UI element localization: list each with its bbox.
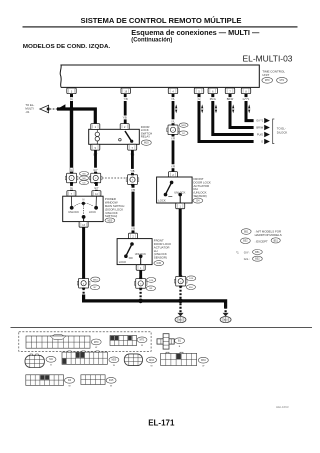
connector ref D4 [193,198,203,203]
connector face D4 [26,375,64,386]
svg-text:LOCK: LOCK [89,210,96,214]
svg-text:B51: B51 [255,251,260,254]
svg-text:EL-171: EL-171 [148,418,175,427]
dashed wire to ground bus [140,288,142,299]
wire G horizontal run with elbow to door lock switch relay coil pin [57,109,95,124]
wire label G/Y above connector [93,168,99,172]
output arrow PU/G [264,132,270,137]
connector refs D16 B10 [186,276,196,290]
wire BR/W to right arrow [230,93,254,127]
actuator RH bottom pin [176,203,185,209]
relay top pin 2 [120,124,129,130]
svg-text:M71: M71 [280,79,285,82]
output arrow BR/W [264,125,270,130]
connector face B cross [157,334,174,349]
wire label Y/B below relay [129,152,135,156]
section divider rule [11,326,313,329]
wire label G at pin 5 [198,97,201,101]
connector ref M70 [262,77,273,83]
power window main switch bottom pin [79,222,88,228]
svg-text:PU/G: PU/G [210,98,216,101]
svg-text:M19: M19 [144,142,149,145]
svg-text:G/Y :: G/Y : [244,250,251,254]
svg-text:M70: M70 [265,79,270,82]
svg-text:G: G [71,187,73,190]
junction connector M33 on wire Y/L [167,124,180,136]
wire label Y/R above actuator RH [170,164,176,168]
svg-text:D15: D15 [157,262,162,265]
relay coil [95,129,99,144]
front door lock actuator RH box [157,177,193,203]
actuator LH switch [124,242,142,264]
reference arrows on wire PU/G [215,104,217,113]
connector ref M4 oval [46,356,56,366]
svg-text:UNIT: UNIT [262,73,269,77]
switch mechanism [70,196,98,221]
dashed connector association line [102,177,127,179]
svg-text:B51: B51 [274,239,279,242]
page reference arrow TO EL-MULTI-01 [25,103,49,114]
svg-text:M33: M33 [149,359,154,362]
wire label Y/L above connector [170,119,176,123]
junction connector on actuator RH ground wire [174,275,187,287]
svg-text:Y/B: Y/B [131,189,135,192]
control unit pin 3 [67,88,76,94]
connector refs M34 B7 [90,277,100,290]
legend ref B52 [241,238,251,244]
actuator RH label [194,177,211,198]
svg-text:SENSOR): SENSOR) [194,194,207,198]
body ground B22 [220,303,231,322]
wire label Y/B above actuator LH [130,227,136,231]
svg-text:MODELOS DE COND. IZQDA.: MODELOS DE COND. IZQDA. [23,44,111,50]
time control unit box [60,65,259,87]
wire PU/G to right arrow [213,93,254,134]
left heading MODELOS DE COND. IZQDA. [23,44,111,50]
front door lock actuator RH top pin [169,172,178,178]
junction connector M4 on wire G [65,172,78,184]
connector ref M71 [277,77,288,83]
wire B switch to junction connector [82,227,85,278]
wire G main vertical to junction connector M4 [70,107,73,174]
wire label Y/B at pin 19 [123,97,129,101]
junction connector M4 on wire G/Y [89,172,102,184]
connector face M34 [161,352,197,365]
relay top pin 1 [91,124,100,130]
connector refs M4 D3 D4 [79,172,88,185]
front door lock actuator LH box [117,239,152,265]
wire G/Y to right arrow [246,93,254,120]
legend *1 G/Y [236,250,262,255]
actuator LH label [154,239,171,260]
connector ref M20 [105,218,115,223]
svg-text:B52: B52 [243,240,248,243]
junction connector on actuator LH ground wire [134,277,147,289]
svg-text:PU/G: PU/G [257,133,263,137]
wire Y/R to front door lock actuator RH [172,134,175,172]
svg-text:G: G [71,169,73,172]
svg-text:D15: D15 [109,379,114,382]
svg-text:G/Y*1: G/Y*1 [243,98,250,101]
wire label Y/B below connector [130,188,136,192]
wire label G/Y below relay [92,152,98,156]
power window main switch box [63,196,103,221]
svg-text:RELAY: RELAY [141,135,150,139]
title underline rule [23,26,298,27]
svg-text:Y/L: Y/L [171,98,175,101]
svg-text:N: N [82,197,84,201]
svg-text:(Continuación): (Continuación) [131,37,172,44]
legend ref B51 [241,229,251,235]
svg-text:BR/W: BR/W [227,98,234,101]
svg-text:UNLOCK: UNLOCK [68,210,79,214]
svg-text:EL-MULTI-03: EL-MULTI-03 [243,54,293,63]
wire Y/B relay to junction connector [131,150,134,176]
relay bottom pin 5 [91,144,100,150]
connector ref M33 oval [147,357,157,367]
svg-text:SISTEMA DE CONTROL REMOTO MÚLT: SISTEMA DE CONTROL REMOTO MÚLTIPLE [81,16,242,25]
svg-text:UNLOCK: UNLOCK [135,252,146,256]
relay bottom pin 7 [128,144,137,150]
bus junction node at actuator RH [178,299,183,304]
relay switch contact [119,131,134,143]
connector ref M71 oval [137,337,147,347]
wire label BR/W at pin 7 [226,97,234,101]
wire label G/Y below connector [94,186,100,190]
wire G/Y relay to junction connector [94,150,97,174]
reference arrows on wire G [201,104,203,113]
page number EL-171 [148,418,175,427]
dashed wire to ground bus [179,286,181,299]
connector face D15 [81,375,105,385]
relay label [141,125,152,139]
legend text M/T models [255,229,282,237]
svg-text:M70: M70 [94,341,99,344]
svg-text:LOCK: LOCK [158,199,166,203]
wire label G at pin 3 [70,97,73,101]
svg-text:BR/W: BR/W [256,126,263,130]
junction connector on switch ground wire [77,277,90,289]
svg-text:G/L :: G/L : [244,257,250,261]
wire label Y/R below connector [170,137,176,141]
ground bus [84,295,226,309]
svg-text:SENSOR): SENSOR) [154,256,167,260]
body ground B11 [175,303,186,322]
wire label G/Y*1 at pin 8 [242,97,251,101]
svg-text:HEL1693: HEL1693 [276,405,289,409]
actuator LH bottom pin [136,265,145,271]
connector ref B1 oval [175,338,185,348]
bus junction node at actuator LH [138,299,143,304]
svg-text:Y/B: Y/B [131,228,135,231]
connector ref M20 oval [109,357,119,367]
output arrow G/Y [264,118,270,123]
svg-text:SWITCH): SWITCH) [105,214,117,218]
connector group dashed border [19,332,151,352]
wire Y/B long run to front door lock actuator LH [132,184,135,234]
connector face M33 round [124,354,142,366]
svg-text:*1: *1 [236,250,239,254]
svg-text:Y/B: Y/B [130,170,134,173]
wire B actuator LH to junction connector [139,270,142,278]
door lock switch relay box [89,129,140,144]
wire label B below switch [82,230,85,234]
power window main switch top pin 7 [67,191,76,197]
svg-text:M20: M20 [112,359,117,362]
svg-text:G: G [261,140,263,144]
svg-text:Y/L: Y/L [171,120,175,123]
legend G/L [244,256,262,261]
svg-text:G: G [198,98,200,101]
power window main switch top pin 14 [92,191,101,197]
front door lock actuator LH top pin [129,233,138,239]
actuator RH switch [164,181,182,203]
junction connector on wire Y/B [126,174,139,186]
wire G from pin 3 down to junction [70,93,73,110]
connector face M4 round [25,354,44,368]
connector ref D15 oval [106,377,116,387]
svg-text:Y/B: Y/B [123,117,127,120]
connector face M20 [62,351,107,364]
connector ref D15 [154,261,164,266]
svg-text:HARDTOP MODELS: HARDTOP MODELS [255,233,282,237]
control unit pin 19 [121,88,130,94]
connector ref D4 oval [65,377,75,387]
control unit pin 5 [194,88,203,94]
page title [81,16,242,25]
svg-text:B52: B52 [255,258,260,261]
wire label B below actuator RH [179,210,182,214]
wire Y/B from pin 19 to relay [124,93,127,124]
wire label G below connector [70,186,73,190]
svg-text:M34: M34 [201,359,206,362]
wire B actuator RH to junction connector [179,209,182,276]
svg-text:G: G [71,98,73,101]
svg-text:Y/R: Y/R [171,138,175,141]
wire label Y/L at pin 4 [170,97,176,101]
connector ref M34 oval [198,357,208,367]
svg-text:Y/R: Y/R [171,165,175,168]
reference arrows on wire Y/L [175,104,177,113]
wire label Y/B above relay [122,116,128,120]
power window main switch label [105,197,124,218]
wire label PU/G at pin 6 [209,97,216,101]
wire label Y/B above connector [130,169,136,173]
svg-text:LOCK: LOCK [119,260,127,264]
svg-text:G/Y*1: G/Y*1 [256,119,263,123]
connector refs D14 B9 [146,278,156,291]
svg-text:M71: M71 [140,339,145,342]
reference arrows on wire BR/W [232,104,234,113]
legend text EXCEPT [255,238,281,244]
svg-text:G/Y: G/Y [94,187,99,190]
svg-text:B51: B51 [244,230,249,233]
connector ref M19 [141,140,151,145]
bracket TO EL-D/LOCK [273,119,288,144]
connector face M70 [26,334,90,348]
direction arrow on wire G [59,104,65,108]
connector face M71 [110,336,137,346]
svg-text:-01: -01 [25,110,29,114]
wire Y/L from pin 4 to junction connector [172,93,175,126]
control unit pin 6 [208,88,217,94]
dash-dot link to page arrow [50,108,57,110]
svg-text:D/LOCK: D/LOCK [277,131,288,135]
wire G/Y to power window main switch [95,182,98,191]
connector refs M33 D2 [179,123,188,135]
svg-text:G/Y: G/Y [93,169,98,172]
wire label G above connector [70,168,73,172]
dashed segment to ground bus [82,288,84,295]
reference arrows on wire G/Y [248,104,250,113]
subtitle line 1 [131,30,259,37]
time control unit label [262,69,285,77]
connector ref M70 oval [91,339,101,349]
wire G to power window main switch [70,182,73,191]
svg-text:M20: M20 [108,219,113,222]
output arrow G [264,139,270,144]
svg-text:Y/B: Y/B [124,98,128,101]
control unit pin 8 [241,88,250,94]
wire G to right arrow [199,93,254,141]
control unit pin 4 [168,88,177,94]
svg-text:UNLOCK: UNLOCK [174,190,185,194]
control unit pin 7 [225,88,234,94]
diagram id EL-MULTI-03 [243,54,293,63]
subtitle line 2 [131,37,172,44]
svg-text:: EXCEPT: : EXCEPT [255,239,268,243]
